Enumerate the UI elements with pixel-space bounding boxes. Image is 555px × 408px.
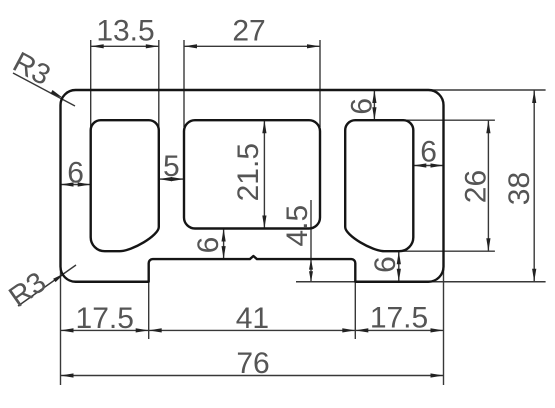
svg-text:6: 6 — [192, 237, 225, 254]
svg-text:17.5: 17.5 — [76, 302, 134, 335]
svg-text:17.5: 17.5 — [370, 301, 428, 334]
svg-text:26: 26 — [459, 170, 492, 203]
svg-text:6: 6 — [67, 156, 84, 189]
svg-text:4.5: 4.5 — [281, 205, 314, 247]
svg-text:13.5: 13.5 — [96, 15, 154, 48]
svg-text:27: 27 — [232, 15, 265, 48]
svg-text:6: 6 — [345, 98, 378, 115]
svg-text:21.5: 21.5 — [232, 143, 265, 201]
svg-text:76: 76 — [236, 347, 269, 380]
svg-text:6: 6 — [420, 135, 437, 168]
svg-text:6: 6 — [369, 256, 402, 273]
svg-text:41: 41 — [236, 302, 269, 335]
svg-text:5: 5 — [163, 150, 180, 183]
svg-text:38: 38 — [503, 172, 536, 205]
